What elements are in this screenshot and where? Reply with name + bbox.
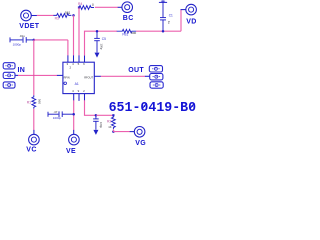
svg-text:OUT: OUT [128,67,144,74]
wire R2 to VG [112,129,114,131]
svg-text:C5: C5 [102,37,106,41]
svg-text:BC: BC [123,15,134,22]
pad P5 (OUT middle) [145,74,163,80]
junction C4 / VE net [72,113,75,116]
junction C1 [162,30,165,33]
svg-text:R2: R2 [107,119,111,123]
connector VDET [21,10,37,21]
wire U1 VG pin down and right [85,100,96,115]
svg-text:0: 0 [92,3,94,7]
ferrite bead FB1 [117,29,137,33]
U1 pin RFIN stub [57,74,63,76]
pad P1 (IN top) [3,63,15,69]
corner dot R4 input [78,6,80,8]
wire C2 junction right [34,39,68,41]
wire to R2 corner [96,114,114,116]
wire FB1 to VD corner [136,30,181,32]
svg-text:VDET: VDET [19,23,39,30]
svg-text:R4: R4 [78,2,82,6]
svg-text:600: 600 [131,31,136,35]
wire C2 junction down to IN net [33,40,35,95]
svg-text:1000p: 1000p [13,42,22,46]
svg-text:100p: 100p [99,44,103,50]
wire VDET to R3 [37,14,54,16]
capacitor C5 [94,31,100,52]
pad P6 (OUT bottom) [150,82,163,88]
svg-text:.01u: .01u [19,34,25,38]
wire R4 down to U1 pin 5 [78,8,80,56]
junction R2 bottom [112,130,115,133]
svg-text:IN: IN [18,67,26,74]
svg-text:.47: .47 [53,110,58,114]
svg-text:1000p: 1000p [53,116,62,120]
pad P2 (IN middle) [3,72,18,78]
wire R1 to VC [33,109,35,130]
connector VD [181,4,197,15]
ground (C6) [93,130,98,135]
wire U1 VE pin down [73,100,75,130]
svg-text:VG: VG [135,140,146,147]
resistor R4 [79,6,94,10]
junction C6 [95,114,98,117]
svg-text:A1: A1 [75,82,79,86]
junction C2 / R1 / U1 net [33,39,36,42]
U1 top pin numbers [66,62,85,70]
connector VE [69,130,80,145]
U1 pin stub 6 [84,55,86,62]
wire R4 to BC [95,6,118,8]
svg-text:100p: 100p [99,122,103,128]
U1 pin stub 5 [78,55,80,62]
resistor R3 [53,13,71,17]
U1 bottom pin stub VG [84,94,86,101]
connector VC [29,130,40,145]
junction R3 output [72,14,75,17]
wire U1 RFOUT to OUT pad [101,75,146,77]
svg-text:1K: 1K [108,125,112,129]
svg-text:VD: VD [186,19,196,26]
corner dot R2 top [112,114,114,116]
svg-text:561: 561 [65,11,71,15]
U1 bottom pin stub middle [78,94,80,101]
wire R3 junction down to U1 pin 4 [73,15,75,55]
connector BC [118,2,133,13]
svg-text:RFOUT: RFOUT [84,75,93,79]
slashed zero marks [142,103,194,109]
U1 pin 1 indicator circle [64,82,67,85]
svg-text:1u: 1u [167,21,171,25]
svg-text:RFIN: RFIN [64,75,70,79]
junction C5 [96,30,99,33]
pad P3 (IN bottom) [3,82,15,88]
capacitor C2 (series, input bias tap) [10,37,34,43]
svg-text:R1: R1 [27,100,31,104]
svg-text:VC: VC [26,147,36,154]
U1 pin RFOUT stub [94,75,101,77]
svg-text:560: 560 [37,99,41,104]
power bar (C1 top) [159,0,167,2]
wire IN to U1 RFIN [18,74,57,76]
wire corner down to U1 pin 3 [67,40,69,56]
capacitor C1 [160,2,166,31]
capacitor C6 (VG bypass to ground) [93,115,99,130]
svg-text:FB1: FB1 [122,33,128,37]
wire VD rail (pin 6 up and right) [85,31,118,55]
IC U1 body [63,62,94,93]
wire VD vertical [180,10,182,32]
svg-text:VE: VE [66,148,76,155]
resistor R2 [112,115,116,129]
U1 pin stub 3 [67,55,69,62]
U1 bottom pin numbers [72,89,85,93]
junction IN / R1 net [33,75,34,76]
pad P4 (OUT top) [149,66,162,72]
svg-text:C1: C1 [169,13,173,17]
U1 pin stub 4 [73,55,75,62]
ground (C5) [95,53,100,58]
capacitor C4 (VE bypass) [48,111,74,117]
U1 bottom pin stub VE [73,94,75,101]
svg-text:651-0419-B0: 651-0419-B0 [109,100,197,116]
connector VG [130,127,145,138]
svg-text:R3: R3 [55,17,59,21]
wire to VG connector [113,131,130,133]
resistor R1 [32,95,36,109]
